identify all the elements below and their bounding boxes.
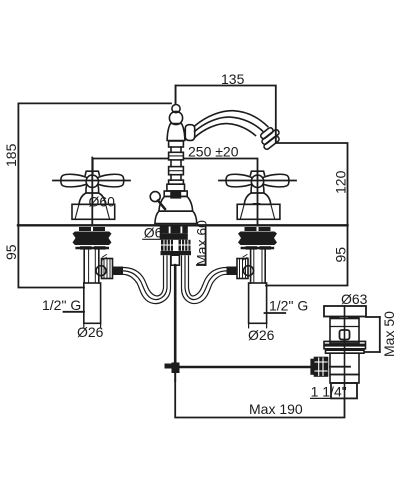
svg-text:250 ±20: 250 ±20 [188, 144, 239, 160]
spout hub [185, 125, 194, 141]
counter line [18, 224, 348, 226]
leader 1/2G left [64, 311, 85, 313]
svg-text:Ø26: Ø26 [77, 324, 104, 340]
base escutcheon [72, 204, 115, 219]
center lower black band [161, 251, 192, 255]
neck [86, 186, 99, 194]
left flange bar [77, 247, 108, 249]
bell dome [159, 196, 193, 211]
svg-text:135: 135 [221, 71, 245, 87]
svg-text:Max 50: Max 50 [381, 311, 397, 357]
drain gasket marks [331, 317, 359, 319]
rod coupling block [172, 363, 180, 374]
drain body upper [330, 319, 359, 344]
svg-text:1/2" G: 1/2" G [42, 297, 81, 313]
spout curve top line [195, 111, 268, 127]
drain flange [324, 306, 366, 317]
center circle [251, 175, 263, 187]
svg-text:Max 190: Max 190 [249, 401, 303, 417]
svg-text:Ø63: Ø63 [341, 291, 368, 307]
handle dome [244, 193, 271, 204]
center circle [86, 175, 98, 187]
handle cross bar line [53, 180, 130, 182]
right supply pipe [251, 249, 266, 283]
max50 bracket [365, 317, 380, 352]
svg-text:Ø26: Ø26 [248, 327, 275, 343]
column ring stack [167, 141, 185, 191]
right flange bar [242, 247, 273, 249]
right thread section 1/2G [249, 283, 267, 323]
right hose ferrule [227, 267, 238, 276]
base escutcheon [237, 204, 280, 219]
right flexible hose [182, 256, 227, 303]
rod clamp screw [165, 364, 172, 369]
cartridge black square [171, 191, 180, 198]
spray head [257, 125, 284, 151]
horizontal actuating rod [180, 366, 315, 369]
left wing [226, 174, 251, 187]
svg-text:Ø6: Ø6 [144, 225, 163, 241]
handle centerline [91, 158, 93, 226]
right pipe thread marks [243, 255, 247, 261]
svg-text:120: 120 [333, 170, 349, 194]
svg-text:1/2" G: 1/2" G [269, 298, 308, 314]
drain body lower [330, 353, 359, 374]
spout top finial circle [172, 105, 180, 113]
right tee valve [237, 259, 254, 279]
overflow window [340, 330, 350, 340]
drain thread 1 1/4 [331, 383, 357, 398]
top cap [85, 171, 99, 175]
bell base [155, 211, 197, 223]
spout ball [169, 111, 182, 124]
left tee valve [96, 259, 113, 279]
right handle [219, 171, 296, 225]
pop-up lever knob [150, 192, 160, 202]
svg-text:95: 95 [333, 247, 349, 263]
pop-up rod [174, 265, 177, 362]
right wing [264, 174, 289, 187]
left mounting nut black blob [73, 227, 112, 250]
dimension max190 [175, 381, 344, 418]
drain body step [330, 375, 359, 384]
max60 bracket [197, 226, 206, 266]
svg-text:Ø60: Ø60 [89, 194, 116, 210]
center mounting black blob [160, 227, 188, 240]
drain collar line [330, 326, 359, 328]
center nut hatch [161, 240, 191, 251]
faucet centerline [175, 86, 177, 105]
knurled nut [311, 358, 327, 377]
svg-text:95: 95 [3, 244, 19, 260]
spout curve bottom line [195, 124, 256, 138]
dimension 95 right [266, 225, 348, 286]
spout curve middle line [195, 117, 263, 131]
left flexible hose [123, 256, 171, 303]
neck [251, 186, 264, 194]
dimension 95 left [18, 225, 84, 288]
handle dome [79, 193, 106, 204]
handle cross bar line [219, 180, 296, 182]
dimension 250 +-20 [93, 159, 258, 174]
svg-text:185: 185 [3, 143, 19, 167]
rod lower pin [174, 373, 176, 381]
pop-up lever rod [158, 201, 165, 210]
spout body vase [167, 124, 185, 141]
drain centerline [344, 306, 346, 398]
leader 1 1/4 [311, 397, 357, 399]
left hose ferrule [113, 267, 124, 276]
handle centerline [257, 172, 259, 225]
dimension 185 [18, 103, 171, 225]
svg-text:1 1/4": 1 1/4" [311, 384, 347, 400]
top cap [250, 171, 264, 175]
drain rings [324, 341, 366, 353]
dome logo mark [254, 203, 260, 205]
dimension 135 [176, 86, 276, 144]
leader 1/2G right [265, 312, 286, 314]
left thread section 1/2G [84, 283, 101, 323]
left supply pipe [84, 249, 99, 283]
escutcheon step [164, 191, 187, 196]
left pipe thread marks [103, 255, 107, 261]
right mounting nut black blob [238, 227, 277, 250]
leader dia6 [143, 238, 160, 240]
rod guide [171, 255, 179, 265]
left wing [61, 174, 86, 187]
right wing [98, 174, 123, 187]
drain rod port line [330, 366, 350, 368]
svg-text:Max 60: Max 60 [194, 220, 210, 266]
dimension 120 right [276, 143, 348, 225]
left handle [53, 158, 130, 226]
